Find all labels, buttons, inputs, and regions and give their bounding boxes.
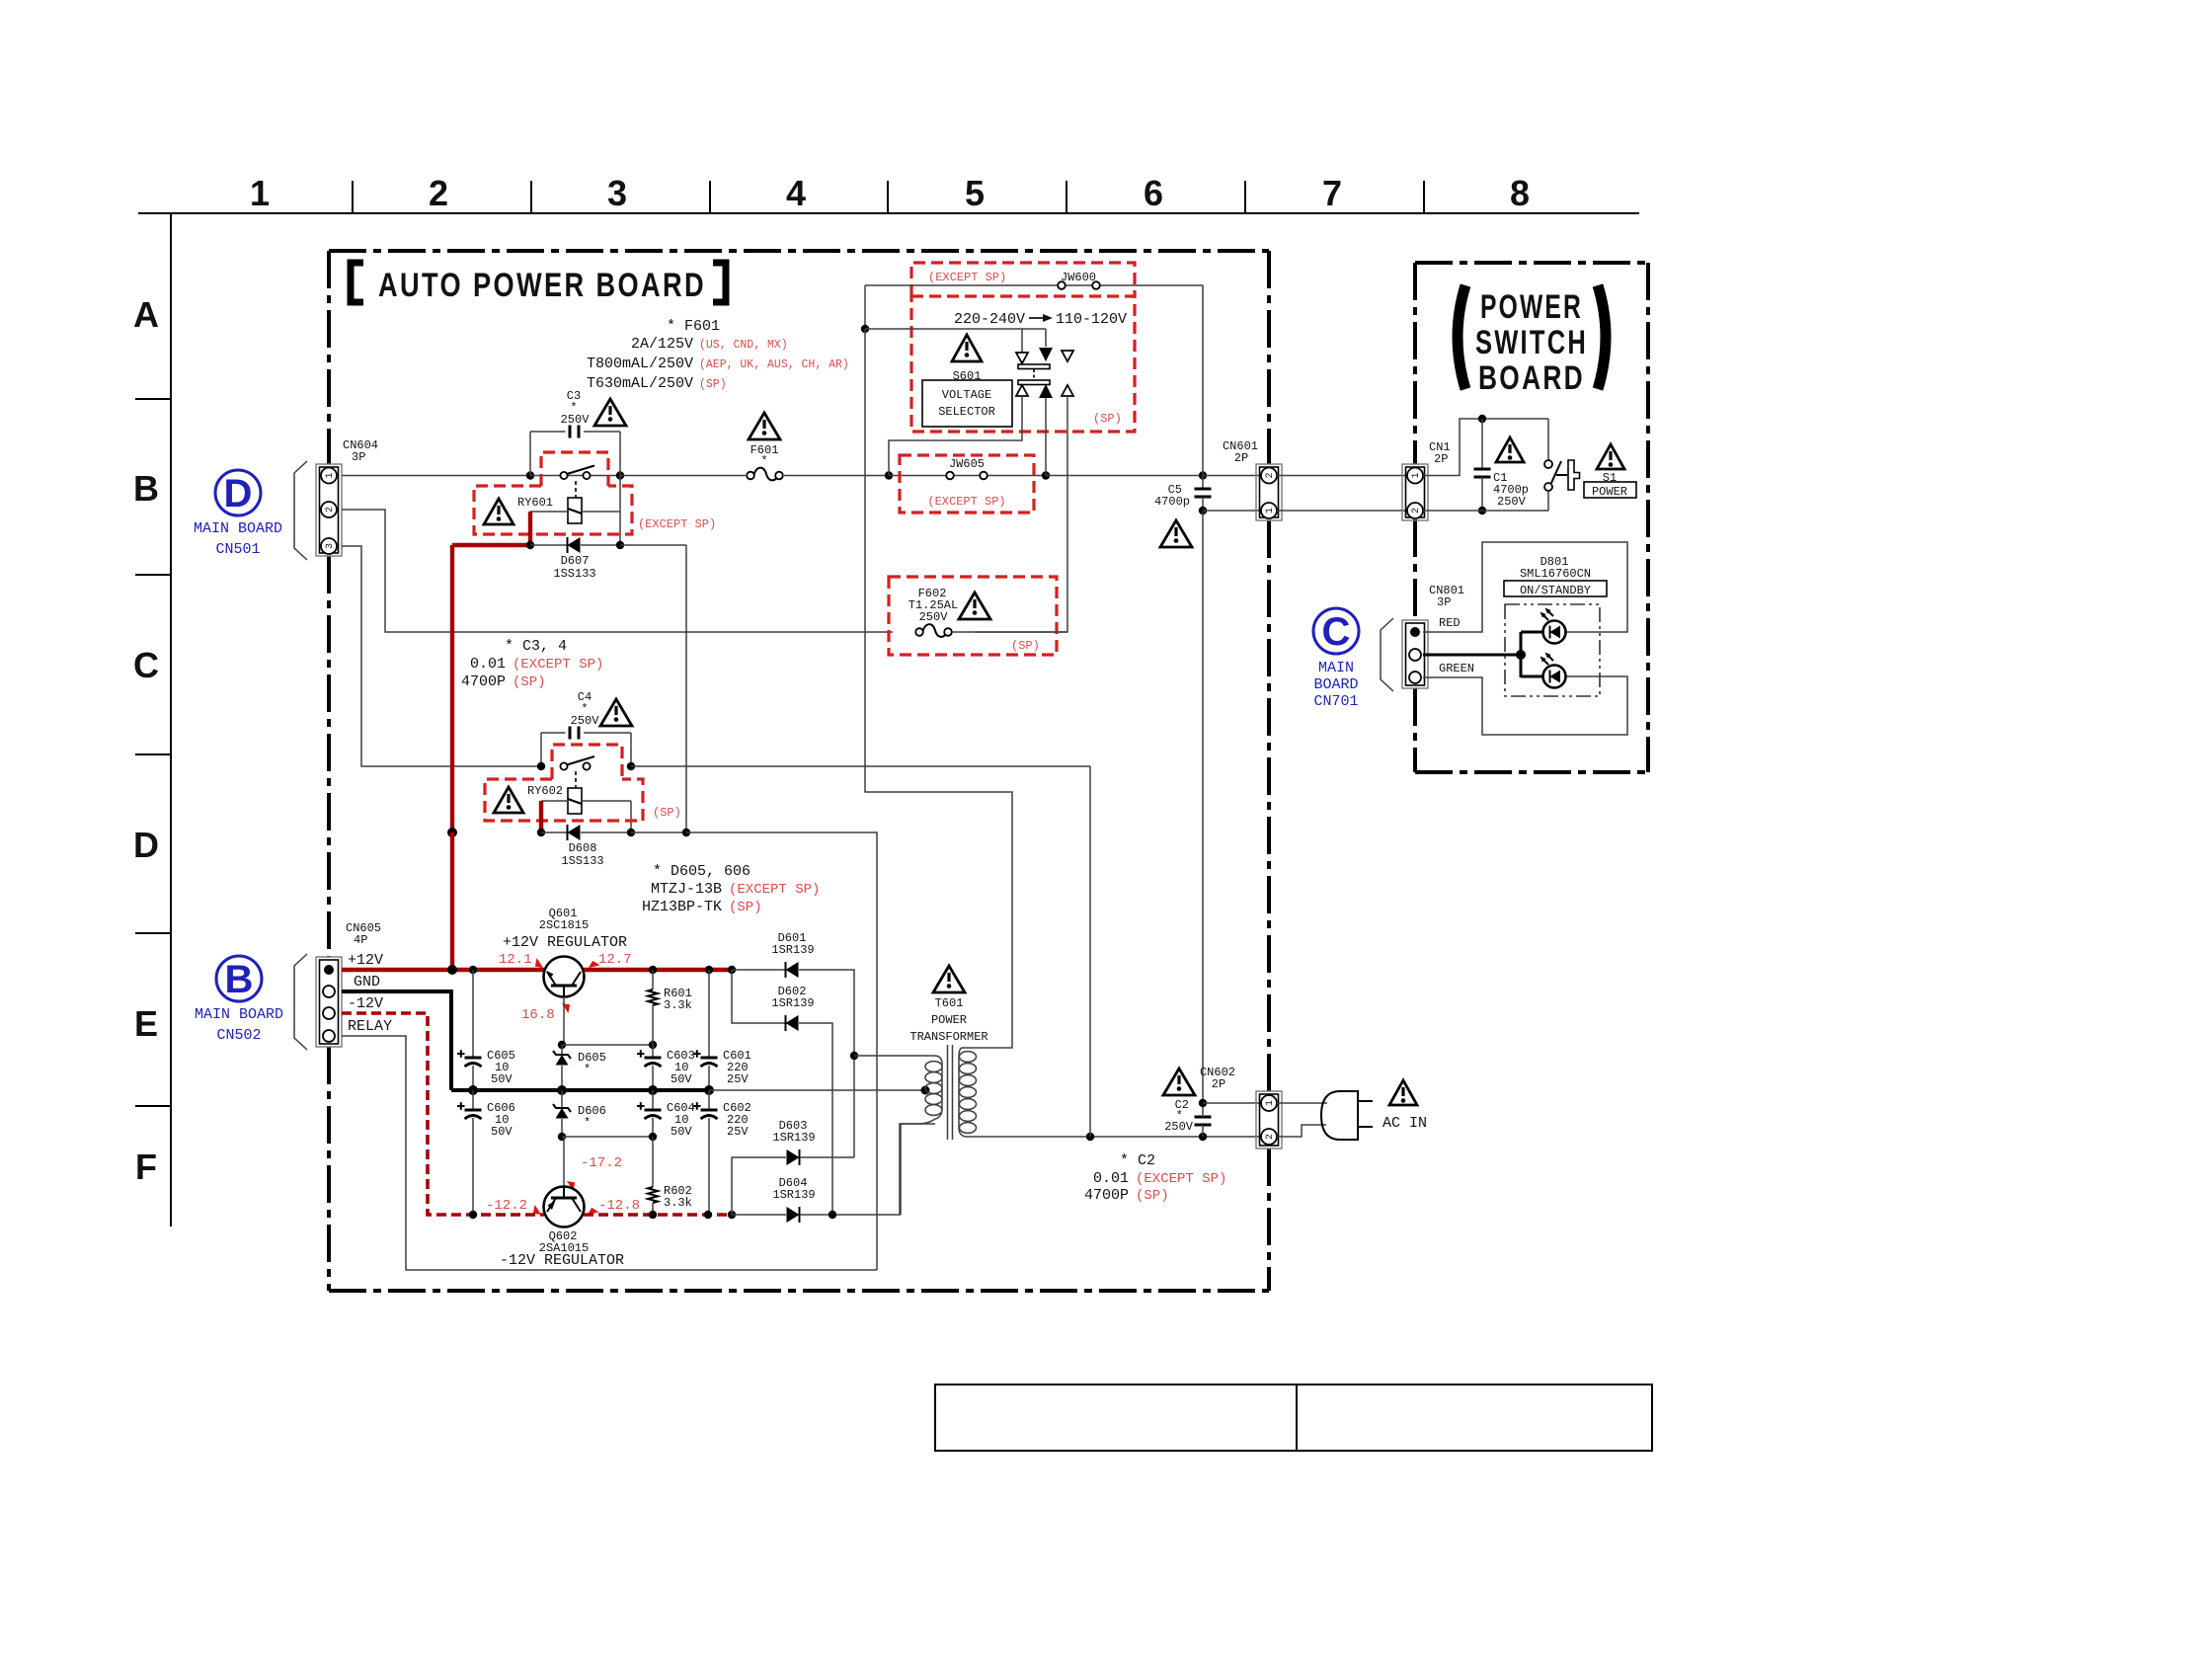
svg-text:(EXCEPT SP): (EXCEPT SP) bbox=[927, 495, 1005, 509]
capacitor C605 bbox=[457, 970, 482, 1090]
POWER SWITCH BOARD outline (dash-dot) bbox=[1415, 263, 1648, 772]
svg-text:3P: 3P bbox=[1437, 595, 1451, 609]
svg-text:2: 2 bbox=[1265, 1134, 1276, 1140]
svg-text:110-120V: 110-120V bbox=[1056, 311, 1127, 328]
svg-text:+12V: +12V bbox=[348, 952, 383, 969]
svg-text:8: 8 bbox=[1510, 173, 1530, 213]
svg-text:2P: 2P bbox=[1434, 452, 1448, 466]
wire dark-red main riser bbox=[450, 545, 454, 832]
wire selector mid return bbox=[1045, 398, 1047, 476]
resistor R601 3.3k bbox=[648, 970, 658, 1045]
svg-text:MAIN: MAIN bbox=[1318, 660, 1354, 676]
node 220-240V line junction bbox=[861, 325, 869, 333]
label C603 10 50V bbox=[667, 1049, 695, 1086]
switch S1 bbox=[1544, 419, 1580, 511]
svg-text:3P: 3P bbox=[352, 450, 365, 464]
connector CN604 brace bbox=[294, 461, 307, 560]
svg-text:RED: RED bbox=[1439, 616, 1461, 630]
warning triangle C1 bbox=[1496, 437, 1524, 462]
wire GND rail thick bbox=[451, 1088, 709, 1092]
label D608 1SS133 bbox=[561, 841, 603, 868]
node D607 left junction bbox=[526, 541, 534, 549]
svg-text:* C2: * C2 bbox=[1120, 1152, 1155, 1169]
wire D608 row to relay return riser bbox=[686, 832, 877, 1270]
connector CN801 brace bbox=[1381, 618, 1393, 691]
capacitor C602 bbox=[693, 1090, 718, 1215]
svg-text:12.7: 12.7 bbox=[598, 952, 632, 968]
svg-text:3.3k: 3.3k bbox=[664, 1196, 692, 1210]
svg-text:(EXCEPT SP): (EXCEPT SP) bbox=[928, 271, 1006, 284]
relay contact RY602 switch bbox=[560, 756, 594, 770]
svg-text:(SP): (SP) bbox=[1011, 639, 1040, 653]
interface circle B bbox=[216, 956, 262, 1001]
grid ruler top line bbox=[138, 212, 1639, 214]
wire C5 node to CN601 pin2 bbox=[1203, 475, 1261, 477]
LED D801 upper bbox=[1540, 608, 1566, 644]
label 220-240V -> 110-120V bbox=[954, 311, 1127, 328]
node RY602 right junction bbox=[627, 762, 635, 770]
svg-text:* C3, 4: * C3, 4 bbox=[505, 638, 567, 655]
zener diode D606 bbox=[553, 1090, 571, 1137]
connector CN604 pin 1 bbox=[321, 468, 337, 484]
node C2 bottom junction bbox=[1199, 1133, 1207, 1141]
dash-dot box around LEDs bbox=[1505, 604, 1600, 696]
red dashed box RY601 coil (EXCEPT SP) bbox=[474, 486, 632, 534]
diode D607 1SS133 bbox=[530, 537, 620, 553]
svg-text:4: 4 bbox=[786, 173, 806, 213]
node GND C603 bbox=[648, 1085, 658, 1095]
wire CN801 pin1 RED loop to LED1 bbox=[1423, 542, 1627, 632]
svg-text:CN701: CN701 bbox=[1313, 693, 1358, 710]
svg-text:(US, CND, MX): (US, CND, MX) bbox=[699, 339, 788, 352]
selector arrow filled up bbox=[1039, 384, 1053, 398]
wire to fuse F601 bbox=[620, 475, 746, 477]
label C601 220 25V bbox=[723, 1049, 751, 1086]
warning triangle C4 bbox=[600, 699, 632, 726]
connector CN605 pin 3 bbox=[323, 1007, 335, 1019]
red dashed box RY601 contact bbox=[541, 452, 608, 486]
svg-text:*: * bbox=[584, 1116, 591, 1130]
wire CN604 pin2 to F602 line bbox=[342, 510, 865, 632]
svg-text:*: * bbox=[584, 1063, 591, 1076]
label T601 POWER TRANSFORMER bbox=[909, 996, 987, 1044]
svg-text:(SP): (SP) bbox=[729, 900, 762, 915]
wire to C5 node bbox=[1046, 475, 1203, 477]
wire JW600 node down to primary top bbox=[865, 329, 1012, 1048]
node +12V riser junction bbox=[447, 965, 457, 975]
jumper JW605 bbox=[889, 472, 1046, 480]
svg-text:(AEP, UK, AUS, CH, AR): (AEP, UK, AUS, CH, AR) bbox=[699, 358, 849, 371]
wire relay coil RY601 leads bbox=[530, 476, 620, 546]
label -12.2 with arrow bbox=[486, 1198, 544, 1218]
wire selector drop left bbox=[1021, 329, 1023, 353]
AC plug bbox=[1321, 1091, 1373, 1140]
connector CN602 body bbox=[1256, 1091, 1282, 1148]
wire F602 right bbox=[952, 631, 1067, 633]
wire D602 feed bbox=[732, 970, 785, 1023]
svg-text:0.01: 0.01 bbox=[1093, 1170, 1129, 1187]
wire selector right leg to F602 bbox=[975, 396, 1067, 632]
grid row ticks bbox=[135, 399, 171, 1106]
svg-text:250V: 250V bbox=[1164, 1120, 1194, 1134]
label D801 SML16760CN bbox=[1520, 555, 1591, 581]
capacitor C4 bbox=[541, 727, 631, 767]
wire relay coil RY602 leads bbox=[541, 801, 631, 832]
label MAIN BOARD CN701 bbox=[1313, 660, 1358, 710]
label C5 4700p bbox=[1154, 483, 1190, 509]
svg-text:RELAY: RELAY bbox=[348, 1018, 392, 1035]
warning triangle RY602 bbox=[494, 787, 523, 813]
connector CN601 pin 1 bbox=[1261, 503, 1277, 518]
svg-text:E: E bbox=[134, 1003, 158, 1044]
svg-text:1SS133: 1SS133 bbox=[553, 567, 595, 581]
wire Q601 emitter down bbox=[563, 997, 565, 1046]
diode D601 1SR139 bbox=[786, 962, 799, 978]
wire Q602 base up bbox=[563, 1137, 565, 1187]
svg-text:2: 2 bbox=[1265, 472, 1276, 478]
label -17.2 with arrow bbox=[564, 1155, 622, 1191]
relay RY602 dashed link bbox=[575, 771, 577, 788]
svg-text:D606: D606 bbox=[578, 1104, 606, 1118]
node secondary top junction bbox=[850, 1052, 858, 1060]
svg-text:(SP): (SP) bbox=[699, 378, 727, 391]
connector CN605 pin 4 bbox=[323, 1030, 335, 1042]
svg-text:50V: 50V bbox=[671, 1125, 692, 1139]
connector CN605 pin 1 bbox=[324, 965, 334, 975]
svg-text:0.01: 0.01 bbox=[470, 656, 506, 673]
wire C5 to CN601 pin1 bbox=[1203, 510, 1261, 512]
label Q602 2SA1015 -12V REGULATOR bbox=[500, 1229, 624, 1269]
wire CN601 to CN1 bottom bbox=[1277, 510, 1407, 512]
selector arrow open up right bbox=[1062, 385, 1073, 396]
node C606 bottom junction bbox=[469, 1211, 477, 1219]
node C601 top junction bbox=[705, 966, 713, 974]
label D606 * bbox=[578, 1104, 606, 1130]
svg-text:SWITCH: SWITCH bbox=[1475, 324, 1588, 361]
selector arrow open down bbox=[1016, 353, 1028, 363]
wire 220-240V line bbox=[865, 328, 1046, 330]
label C2 value note bbox=[1084, 1152, 1226, 1204]
node D601 anode junction bbox=[728, 966, 736, 974]
relay coil RY602 bbox=[568, 788, 582, 814]
label CN801 3P bbox=[1429, 584, 1464, 609]
wire GND from CN605 pin2 bbox=[342, 991, 451, 1090]
svg-text:A: A bbox=[133, 294, 159, 335]
svg-text:MAIN BOARD: MAIN BOARD bbox=[194, 520, 282, 537]
label CN601 2P bbox=[1223, 439, 1258, 465]
svg-text:1: 1 bbox=[1411, 472, 1422, 478]
svg-text:4700P: 4700P bbox=[1084, 1187, 1129, 1204]
warning triangle RY601 bbox=[484, 499, 513, 524]
wire JW600 left leg down bbox=[864, 285, 866, 329]
node D608 left junction bbox=[537, 829, 545, 836]
label F602 T1.25AL 250V bbox=[908, 587, 958, 624]
svg-text:(EXCEPT SP): (EXCEPT SP) bbox=[513, 657, 603, 673]
connector CN801 pin 3 bbox=[1409, 672, 1421, 683]
transformer T601 secondary winding bbox=[900, 1056, 942, 1215]
connector CN605 brace bbox=[294, 954, 307, 1050]
svg-text:1SS133: 1SS133 bbox=[561, 854, 603, 868]
capacitor C5 bbox=[1195, 476, 1212, 512]
svg-text:MAIN BOARD: MAIN BOARD bbox=[195, 1006, 283, 1023]
svg-text:50V: 50V bbox=[491, 1125, 513, 1139]
warning triangle F602 bbox=[959, 593, 990, 619]
label D605,606 type note bbox=[642, 863, 820, 915]
connector CN601 pin 2 bbox=[1261, 468, 1277, 484]
svg-text:ON/STANDBY: ON/STANDBY bbox=[1520, 584, 1591, 597]
node C3 right junction bbox=[616, 471, 624, 479]
wire dark-red relay RY601 to D607 row bbox=[528, 512, 532, 545]
capacitor C2 bbox=[1195, 1103, 1212, 1137]
wire RELAY from CN605 pin4 bbox=[342, 1036, 877, 1270]
svg-text:C: C bbox=[1322, 610, 1351, 654]
wire dark-red relay RY602 lead bbox=[539, 801, 543, 832]
svg-text:2P: 2P bbox=[1234, 451, 1248, 465]
warning triangle AC IN bbox=[1389, 1080, 1417, 1105]
svg-text:* F601: * F601 bbox=[667, 318, 720, 335]
boxed label VOLTAGE SELECTOR bbox=[922, 380, 1012, 427]
wire CN1 pin1 to C1 top bbox=[1423, 419, 1548, 476]
selector arrow open up left bbox=[1016, 385, 1028, 396]
wire fuse to JW605 area bbox=[784, 475, 889, 477]
label CN602 2P bbox=[1200, 1066, 1235, 1091]
label 12.7 with arrow bbox=[587, 952, 632, 972]
svg-text:AUTO POWER BOARD: AUTO POWER BOARD bbox=[378, 267, 706, 304]
svg-text:JW600: JW600 bbox=[1061, 271, 1096, 284]
svg-text:2SC1815: 2SC1815 bbox=[539, 918, 589, 932]
svg-text:T630mAL/250V: T630mAL/250V bbox=[587, 375, 693, 392]
svg-text:2: 2 bbox=[429, 173, 448, 213]
relay coil RY601 bbox=[568, 498, 582, 523]
relay contact RY601 switch bbox=[560, 466, 594, 480]
svg-text:7: 7 bbox=[1322, 173, 1342, 213]
wire C3 node to right node bbox=[530, 475, 620, 477]
node C604 bottom junction bbox=[649, 1133, 657, 1141]
label CN605 4P bbox=[346, 921, 381, 947]
label R601 3.3k bbox=[664, 987, 692, 1012]
label MAIN BOARD CN502 bbox=[195, 1006, 283, 1044]
interface circle D bbox=[215, 470, 261, 515]
svg-text:-12.2: -12.2 bbox=[486, 1198, 527, 1214]
label D605 * bbox=[578, 1051, 606, 1076]
svg-text:1SR139: 1SR139 bbox=[771, 996, 814, 1010]
svg-text:2: 2 bbox=[1411, 508, 1422, 514]
connector CN801 pin 1 bbox=[1410, 627, 1420, 637]
capacitor C601 bbox=[693, 970, 718, 1090]
svg-text:HZ13BP-TK: HZ13BP-TK bbox=[642, 899, 722, 915]
label C3,4 value note bbox=[461, 638, 603, 690]
wire D601 to riser bbox=[799, 970, 854, 1157]
wire -12V dashed from CN605 pin3 bbox=[342, 1013, 544, 1215]
label R602 3.3k bbox=[664, 1184, 692, 1210]
svg-text:(EXCEPT SP): (EXCEPT SP) bbox=[729, 882, 820, 898]
label D602 1SR139 bbox=[771, 985, 814, 1010]
wire D607 row to rail x695 bbox=[620, 544, 686, 546]
svg-text:POWER: POWER bbox=[1480, 288, 1583, 326]
AUTO POWER BOARD title bbox=[351, 263, 726, 304]
svg-text:4700P: 4700P bbox=[461, 673, 506, 690]
selector S601 plates bbox=[1018, 364, 1050, 385]
wire secondary top bbox=[854, 1055, 934, 1057]
node center tap bbox=[921, 1086, 930, 1095]
node C2 top junction bbox=[1199, 1099, 1207, 1107]
fuse F601 bbox=[747, 468, 783, 481]
label MAIN BOARD CN501 bbox=[194, 520, 282, 558]
connector CN1 pin 1 bbox=[1407, 468, 1423, 484]
wire RY602 line to riser x1104 bbox=[631, 765, 1090, 767]
svg-text:BOARD: BOARD bbox=[1313, 676, 1358, 693]
connector CN604 body bbox=[316, 464, 342, 556]
svg-text:1: 1 bbox=[250, 173, 270, 213]
svg-text:T601: T601 bbox=[935, 996, 964, 1010]
wire primary bottom rail bbox=[966, 1136, 1261, 1138]
connector CN605 pin 2 bbox=[323, 986, 335, 997]
svg-text:S1: S1 bbox=[1603, 471, 1617, 485]
svg-text:BOARD: BOARD bbox=[1478, 359, 1585, 397]
label C606 10 50V bbox=[487, 1101, 515, 1139]
label CN1 2P bbox=[1429, 440, 1451, 466]
connector CN602 pin 2 bbox=[1261, 1129, 1277, 1145]
wire C2 riser bbox=[1202, 511, 1204, 1103]
label C4 * 250V bbox=[571, 690, 600, 728]
transistor Q602 2SA1015 bbox=[544, 1187, 585, 1227]
svg-text:250V: 250V bbox=[919, 610, 949, 624]
svg-text:RY602: RY602 bbox=[527, 784, 563, 798]
connector CN604 pin 2 bbox=[321, 502, 337, 517]
warning triangle S1 bbox=[1597, 444, 1624, 469]
svg-text:4P: 4P bbox=[354, 933, 367, 947]
svg-text:50V: 50V bbox=[671, 1072, 692, 1086]
relay RY601 dashed link bbox=[575, 481, 577, 498]
jumper JW600 and wire bbox=[865, 281, 1203, 475]
node GND C605 bbox=[468, 1085, 478, 1095]
svg-text:1SR139: 1SR139 bbox=[772, 1188, 815, 1202]
warning triangle C3 bbox=[594, 399, 626, 426]
wire D604 row bbox=[732, 1214, 786, 1216]
svg-text:250V: 250V bbox=[1497, 495, 1527, 509]
wire CN604 pin1 to C3 node bbox=[342, 475, 530, 477]
diode D608 1SS133 bbox=[541, 825, 631, 840]
svg-text:250V: 250V bbox=[571, 714, 600, 728]
wire CN601 to CN1 top bbox=[1277, 475, 1407, 477]
wire CN801 pin2 common thick bbox=[1423, 632, 1543, 677]
node C1 bottom junction bbox=[1478, 507, 1486, 515]
svg-text:MTZJ-13B: MTZJ-13B bbox=[651, 881, 722, 898]
svg-text:D: D bbox=[133, 825, 159, 865]
node C605 top junction bbox=[469, 966, 477, 974]
boxed label POWER bbox=[1584, 482, 1636, 499]
label -12.8 with arrow bbox=[586, 1198, 640, 1219]
svg-text:GREEN: GREEN bbox=[1439, 662, 1474, 675]
AUTO POWER BOARD outline (dash-dot) bbox=[329, 251, 1269, 1291]
svg-text:3: 3 bbox=[325, 543, 336, 549]
diode D604 1SR139 bbox=[787, 1207, 800, 1223]
wire D603 to riser bbox=[800, 1156, 854, 1158]
capacitor C1 bbox=[1474, 419, 1491, 511]
rail x695 D607 to D608 bbox=[685, 545, 687, 832]
svg-text:SML16760CN: SML16760CN bbox=[1520, 567, 1591, 581]
interface circle C bbox=[1313, 608, 1359, 654]
node R601 top junction bbox=[649, 966, 657, 974]
svg-text:D: D bbox=[224, 472, 253, 515]
svg-text:16.8: 16.8 bbox=[521, 1007, 555, 1023]
node GND D605 bbox=[557, 1085, 567, 1095]
wire D601 row bbox=[732, 969, 785, 971]
POWER SWITCH BOARD title bbox=[1458, 285, 1606, 397]
red dashed box JW605 (EXCEPT SP) bbox=[900, 455, 1034, 513]
svg-text:1: 1 bbox=[325, 472, 336, 478]
wire CN604 pin3 to RY602 line bbox=[342, 546, 541, 766]
resistor R602 3.3k bbox=[648, 1137, 658, 1215]
wire emitter node to R601 bottom bbox=[562, 1044, 653, 1046]
fuse F602 bbox=[915, 624, 952, 637]
node Q601 emitter junction bbox=[558, 1041, 566, 1049]
warning triangle C2 bbox=[1163, 1069, 1195, 1095]
connector CN602 pin 1 bbox=[1261, 1095, 1277, 1111]
wire CN602 pin1 to plug bbox=[1277, 1102, 1327, 1104]
revision table bbox=[935, 1385, 1652, 1451]
node C5 bottom junction bbox=[1199, 507, 1207, 515]
svg-text:-17.2: -17.2 bbox=[581, 1155, 622, 1171]
label C1 4700p 250V bbox=[1493, 471, 1529, 509]
svg-text:GND: GND bbox=[354, 974, 380, 990]
node GND C601 bbox=[704, 1085, 714, 1095]
capacitor C604 bbox=[637, 1090, 662, 1137]
wire C2 top to CN602 pin1 bbox=[1203, 1102, 1261, 1104]
warning triangle T601 bbox=[933, 966, 965, 992]
svg-text:S601: S601 bbox=[953, 369, 982, 383]
svg-text:B: B bbox=[225, 958, 254, 1001]
svg-text:220-240V: 220-240V bbox=[954, 311, 1025, 328]
label C2 * 250V bbox=[1164, 1098, 1194, 1134]
svg-text:F: F bbox=[135, 1147, 157, 1187]
svg-text:2A/125V: 2A/125V bbox=[631, 336, 693, 353]
svg-text:4700p: 4700p bbox=[1154, 495, 1190, 509]
red dashed box RY602 coil (SP) bbox=[485, 779, 643, 821]
red dashed box JW600 (EXCEPT SP) bbox=[911, 263, 1135, 296]
label C602 220 25V bbox=[723, 1101, 751, 1139]
node C602 bottom junction bbox=[704, 1211, 712, 1219]
svg-text:-12.8: -12.8 bbox=[598, 1198, 640, 1214]
label F601 ratings note bbox=[587, 318, 849, 392]
wire CN602 pin2 to plug bbox=[1277, 1125, 1326, 1137]
wire D608 row to rail x695 bbox=[631, 831, 686, 833]
label 12.1 with arrow bbox=[499, 952, 546, 971]
svg-text:25V: 25V bbox=[727, 1125, 749, 1139]
svg-text:JW605: JW605 bbox=[949, 457, 985, 471]
label D603 1SR139 bbox=[772, 1119, 815, 1145]
warning triangle C5 bbox=[1160, 520, 1192, 547]
wire RY602 line riser bbox=[1089, 766, 1091, 1137]
svg-text:(SP): (SP) bbox=[1093, 412, 1122, 426]
svg-text:250V: 250V bbox=[561, 413, 591, 427]
svg-text:-12V: -12V bbox=[348, 995, 383, 1012]
connector CN801 pin 2 bbox=[1409, 649, 1421, 661]
svg-text:5: 5 bbox=[965, 173, 985, 213]
wire secondary bottom riser bbox=[901, 1124, 935, 1215]
node selector-right junction bbox=[1042, 471, 1050, 479]
diode D603 1SR139 bbox=[787, 1149, 800, 1165]
wire D603 feed bbox=[732, 1157, 786, 1215]
node D603 feed junction bbox=[728, 1211, 736, 1219]
label D607 1SS133 bbox=[553, 554, 595, 581]
svg-text:50V: 50V bbox=[491, 1072, 513, 1086]
diode D602 1SR139 bbox=[786, 1015, 799, 1031]
label C605 10 50V bbox=[487, 1049, 515, 1086]
svg-text:CN501: CN501 bbox=[215, 541, 260, 558]
wire D604 row right bbox=[800, 1214, 901, 1216]
svg-text:VOLTAGE: VOLTAGE bbox=[942, 388, 991, 402]
